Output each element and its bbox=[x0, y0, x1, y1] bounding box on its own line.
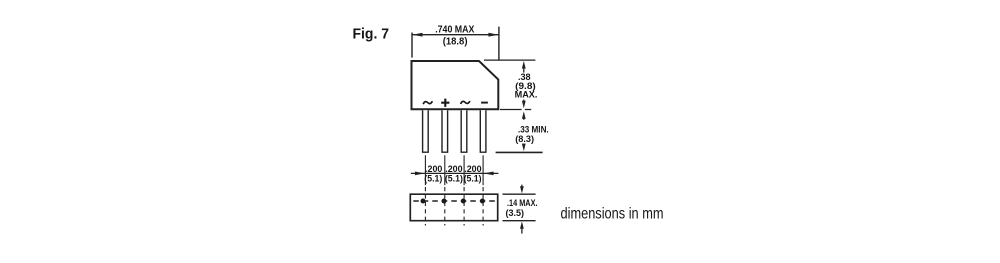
bottom view outline bbox=[410, 194, 497, 221]
extension line top of bottom view bbox=[503, 193, 536, 195]
center line vertical lead 4 (dashed) bbox=[482, 187, 484, 226]
arrow tail below bbox=[521, 228, 523, 234]
lead 3 bbox=[461, 110, 467, 152]
arrow tail above bbox=[521, 185, 523, 189]
extension line at body bottom right bbox=[500, 109, 531, 111]
extension line at body top right bbox=[484, 59, 535, 61]
svg-text:MAX.: MAX. bbox=[515, 88, 538, 99]
pin dot 1 bbox=[421, 199, 426, 204]
arrowhead up .14 bbox=[520, 221, 524, 228]
terminal symbol + (pin 2) bbox=[441, 99, 449, 107]
dimension .740 MAX (18.8) width dim bbox=[412, 27, 499, 61]
terminal symbol ~ (pin 3) bbox=[461, 101, 470, 104]
lead 2 bbox=[442, 110, 448, 152]
pin dot 2 bbox=[442, 199, 447, 204]
dimension .14 MAX (3.5) thickness dim bbox=[503, 185, 536, 234]
extension line right bbox=[498, 27, 500, 61]
svg-text:(3.5): (3.5) bbox=[506, 207, 525, 218]
extension tick at lead 1 bbox=[424, 155, 426, 185]
arrowhead left of .740 dim bbox=[412, 33, 422, 37]
arrowhead down .38 bbox=[522, 101, 526, 109]
center line vertical lead 1 (dashed) bbox=[424, 187, 426, 226]
extension tick at lead 3 bbox=[463, 155, 465, 185]
svg-text:Fig. 7: Fig. 7 bbox=[353, 26, 390, 43]
svg-text:.200: .200 bbox=[425, 164, 442, 174]
arrow tail upper bbox=[523, 115, 525, 120]
svg-text:(5.1): (5.1) bbox=[464, 174, 482, 184]
extension tick at lead 2 bbox=[444, 155, 446, 185]
center line horizontal through pins (dashed) bbox=[413, 200, 495, 202]
center line vertical lead 2 (dashed) bbox=[444, 187, 446, 226]
arrowhead up .38 bbox=[522, 61, 526, 69]
svg-text:dimensions in mm: dimensions in mm bbox=[561, 206, 664, 223]
extension tick at lead 4 bbox=[482, 155, 484, 185]
arrowhead right of .740 dim bbox=[488, 33, 498, 37]
center line vertical lead 3 (dashed) bbox=[463, 187, 465, 226]
dimension .33 MIN (8.3) lead length dim bbox=[496, 115, 543, 152]
svg-text:.740 MAX: .740 MAX bbox=[435, 25, 475, 36]
arrow tail lower bbox=[523, 144, 525, 147]
pin dot 4 bbox=[480, 199, 485, 204]
arrow tail upper bbox=[523, 65, 525, 73]
arrowhead right-pointing (left side) .200 bbox=[415, 172, 425, 176]
dimension .200 pitch ticks bbox=[411, 155, 499, 185]
dimension line bbox=[412, 34, 499, 36]
arrowhead down .14 bbox=[520, 186, 524, 193]
svg-text:(18.8): (18.8) bbox=[443, 36, 468, 47]
terminal symbol ~ (pin 1) bbox=[423, 101, 432, 104]
svg-text:(8.3): (8.3) bbox=[515, 133, 534, 144]
svg-text:(5.1): (5.1) bbox=[424, 174, 442, 184]
lead 1 bbox=[423, 110, 429, 152]
arrow tail lower bbox=[523, 100, 525, 104]
arrowhead left-pointing (right side) .200 bbox=[484, 172, 494, 176]
dimension .38 (9.8) MAX height dim bbox=[484, 60, 535, 109]
svg-text:(5.1): (5.1) bbox=[445, 174, 463, 184]
arrowhead up .33 bbox=[522, 111, 526, 119]
extension line left bbox=[411, 33, 413, 58]
pin dot 3 bbox=[461, 199, 466, 204]
dimension line .200 bbox=[411, 172, 499, 174]
arrowhead down .33 bbox=[522, 144, 526, 152]
svg-text:.200: .200 bbox=[445, 164, 462, 174]
lead 4 bbox=[480, 110, 486, 152]
package body front view bbox=[412, 61, 499, 109]
terminal symbol - (pin 4) bbox=[481, 102, 488, 104]
extension line at lead bottoms bbox=[496, 151, 543, 153]
extension line bottom of bottom view bbox=[503, 220, 536, 222]
svg-text:.200: .200 bbox=[464, 164, 481, 174]
